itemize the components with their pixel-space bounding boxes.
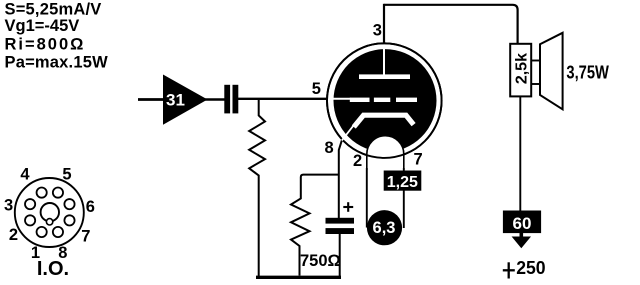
svg-text:3: 3 bbox=[4, 196, 13, 214]
svg-text:1,25: 1,25 bbox=[387, 174, 418, 191]
svg-text:7: 7 bbox=[414, 151, 423, 169]
svg-text:6: 6 bbox=[86, 198, 95, 216]
svg-text:I.O.: I.O. bbox=[37, 258, 69, 280]
svg-text:Vg1=-45V: Vg1=-45V bbox=[5, 17, 80, 35]
svg-text:2: 2 bbox=[9, 226, 18, 244]
svg-text:5: 5 bbox=[62, 166, 71, 184]
svg-text:2: 2 bbox=[353, 152, 362, 170]
svg-text:3: 3 bbox=[373, 22, 382, 40]
svg-text:60: 60 bbox=[513, 214, 532, 233]
svg-text:31: 31 bbox=[166, 91, 185, 110]
svg-text:6,3: 6,3 bbox=[373, 219, 396, 237]
svg-text:750Ω: 750Ω bbox=[300, 252, 341, 270]
svg-text:4: 4 bbox=[20, 166, 30, 184]
svg-text:S=5,25mA/V: S=5,25mA/V bbox=[5, 1, 102, 19]
svg-text:2,5k: 2,5k bbox=[513, 53, 530, 84]
svg-text:250: 250 bbox=[516, 257, 545, 278]
svg-text:5: 5 bbox=[312, 80, 321, 98]
svg-text:8: 8 bbox=[325, 139, 334, 157]
svg-text:Pa=max.15W: Pa=max.15W bbox=[5, 54, 109, 72]
svg-text:7: 7 bbox=[81, 227, 90, 245]
svg-text:3,75W: 3,75W bbox=[566, 63, 609, 83]
svg-text:Ri=800Ω: Ri=800Ω bbox=[5, 35, 86, 53]
